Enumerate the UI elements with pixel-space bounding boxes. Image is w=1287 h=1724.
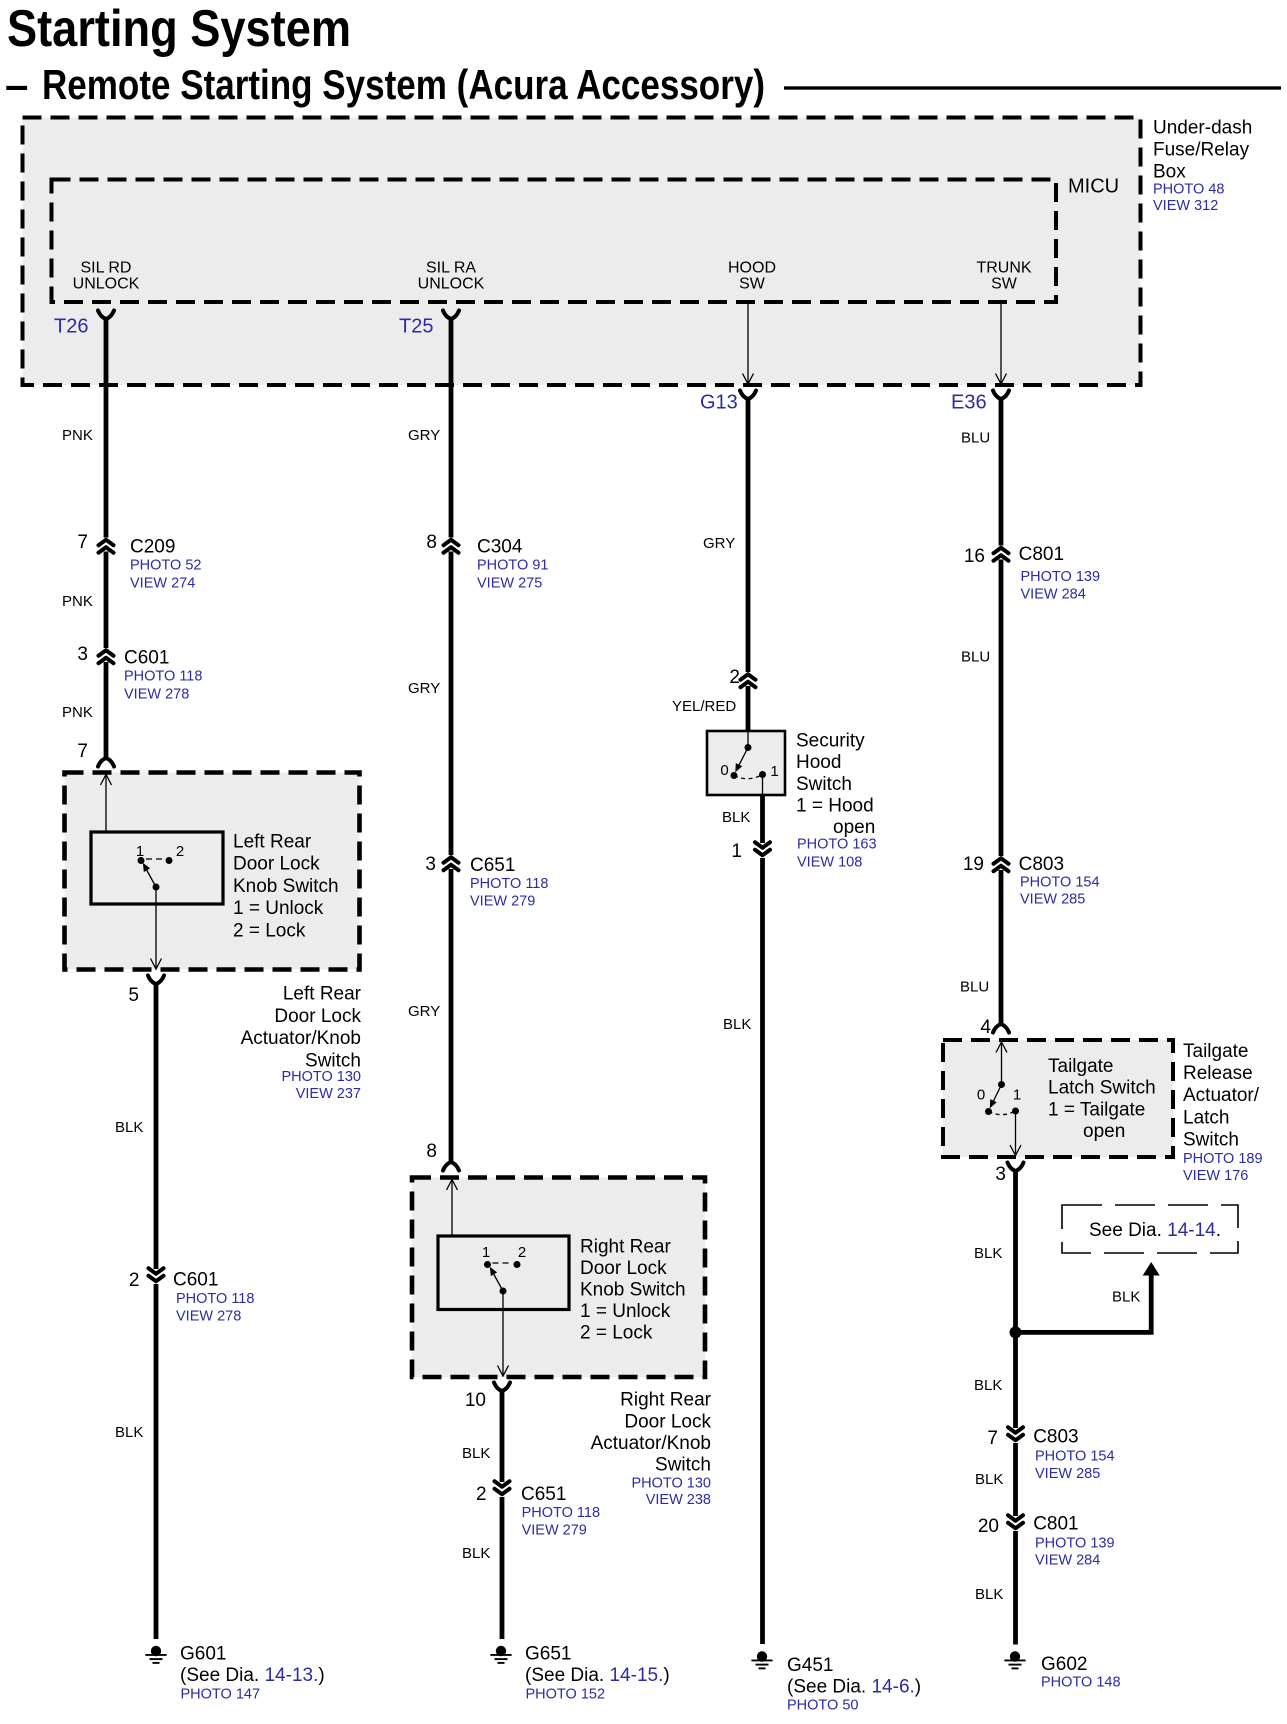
svg-text:16: 16	[964, 546, 985, 567]
left knob switch contact 1	[136, 843, 145, 864]
label: Left Rear Door Lock Actuator/Knob Switch	[241, 984, 362, 1103]
hood switch contact 1	[759, 763, 779, 780]
svg-text:VIEW 275: VIEW 275	[477, 576, 542, 592]
svg-text:Switch: Switch	[1183, 1129, 1239, 1150]
svg-text:2: 2	[476, 1484, 487, 1505]
label: Right Rear Door Lock Actuator/Knob Switch	[591, 1390, 712, 1509]
connector C601 pin 3	[77, 644, 202, 703]
svg-text:Release: Release	[1183, 1063, 1253, 1084]
svg-text:PNK: PNK	[62, 427, 93, 444]
tailgate switch arm	[987, 1085, 1002, 1110]
svg-text:Latch Switch: Latch Switch	[1048, 1078, 1156, 1099]
wire C801 to G602 (BLK)	[975, 1531, 1016, 1645]
svg-text:2 = Lock: 2 = Lock	[233, 921, 306, 942]
label: Right Rear Door Lock Knob Switch	[580, 1236, 686, 1343]
svg-text:SIL RA: SIL RA	[426, 260, 476, 277]
svg-text:Door Lock: Door Lock	[580, 1258, 667, 1279]
svg-text:PHOTO 139: PHOTO 139	[1035, 1536, 1115, 1552]
svg-text:Box: Box	[1153, 161, 1186, 182]
ground G651	[490, 1643, 669, 1702]
svg-text:Security: Security	[796, 730, 865, 751]
svg-text:VIEW 279: VIEW 279	[522, 1523, 587, 1539]
svg-text:2 = Lock: 2 = Lock	[580, 1322, 653, 1343]
tailgate switch dashed throw arc	[989, 1111, 1016, 1115]
label: Tailgate Release Actuator/Latch Switch	[1183, 1041, 1263, 1184]
connector C801 pin 16	[964, 544, 1100, 603]
svg-text:BLK: BLK	[975, 1471, 1003, 1488]
connector C209 pin 7	[77, 532, 201, 592]
svg-text:G13: G13	[700, 392, 738, 414]
svg-text:MICU: MICU	[1068, 176, 1119, 198]
svg-text:7: 7	[77, 532, 88, 553]
svg-text:(See Dia. 14-15.): (See Dia. 14-15.)	[525, 1665, 670, 1686]
svg-text:C651: C651	[470, 855, 515, 876]
svg-text:SW: SW	[739, 276, 766, 293]
ground G602	[1004, 1651, 1120, 1690]
MICU pin label TRUNK SW	[976, 260, 1031, 293]
svg-text:TRUNK: TRUNK	[976, 260, 1031, 277]
label: Tailgate Latch Switch (inside box)	[1048, 1056, 1156, 1142]
right knob switch contact 2	[514, 1244, 527, 1268]
svg-text:HOOD: HOOD	[728, 260, 776, 277]
svg-text:VIEW 108: VIEW 108	[797, 855, 862, 871]
svg-text:Left Rear: Left Rear	[283, 984, 362, 1005]
svg-text:Door Lock: Door Lock	[233, 854, 320, 875]
svg-text:4: 4	[980, 1017, 991, 1038]
wire C803 to C801 (BLK)	[975, 1443, 1016, 1516]
Security Hood Switch box	[707, 731, 785, 795]
svg-text:C601: C601	[173, 1269, 218, 1290]
right knob switch dashed throw link	[493, 1262, 512, 1264]
svg-text:1: 1	[770, 763, 778, 780]
svg-text:SW: SW	[991, 276, 1018, 293]
hood switch arm	[732, 748, 748, 774]
svg-text:PHOTO 50: PHOTO 50	[787, 1698, 858, 1714]
svg-text:G602: G602	[1041, 1654, 1087, 1675]
svg-text:VIEW 312: VIEW 312	[1153, 198, 1218, 214]
svg-text:VIEW 278: VIEW 278	[124, 687, 189, 703]
svg-text:PHOTO 91: PHOTO 91	[477, 558, 548, 574]
svg-text:SIL RD: SIL RD	[81, 260, 132, 277]
svg-text:PNK: PNK	[62, 593, 93, 610]
left knob switch exit line with arrow	[151, 887, 162, 970]
svg-text:(See Dia. 14-13.): (See Dia. 14-13.)	[180, 1665, 325, 1686]
connector C651 pin 2	[476, 1481, 600, 1538]
svg-text:Latch: Latch	[1183, 1107, 1229, 1128]
See Dia. 14-14 reference box	[1062, 1205, 1238, 1253]
wire T25 to C304 (GRY)	[408, 319, 451, 538]
svg-text:7: 7	[987, 1428, 998, 1449]
svg-text:PHOTO 154: PHOTO 154	[1020, 875, 1100, 891]
svg-text:Door Lock: Door Lock	[624, 1411, 711, 1432]
connector pin 2 hood switch	[729, 667, 755, 688]
svg-text:BLU: BLU	[961, 429, 990, 446]
svg-text:VIEW 278: VIEW 278	[176, 1309, 241, 1325]
svg-text:PHOTO 118: PHOTO 118	[522, 1505, 600, 1521]
svg-text:BLK: BLK	[115, 1424, 143, 1441]
svg-text:10: 10	[465, 1390, 486, 1411]
svg-text:Right Rear: Right Rear	[620, 1390, 711, 1411]
svg-text:G451: G451	[787, 1655, 833, 1676]
svg-text:Switch: Switch	[655, 1454, 711, 1475]
connector C651 pin 3	[425, 854, 548, 910]
wire to G451 (BLK)	[723, 858, 763, 1644]
svg-text:1 = Hood: 1 = Hood	[796, 796, 874, 817]
tailgate switch exit line with arrow	[1010, 1111, 1021, 1157]
svg-text:VIEW 237: VIEW 237	[296, 1086, 361, 1102]
wire E36 to C801 (BLU)	[961, 399, 1001, 546]
svg-text:PHOTO 139: PHOTO 139	[1021, 569, 1101, 585]
svg-text:C801: C801	[1019, 544, 1064, 565]
svg-text:UNLOCK: UNLOCK	[418, 276, 485, 293]
left knob switch contact 2	[166, 843, 185, 864]
svg-text:C304: C304	[477, 536, 523, 557]
section subtitle	[5, 61, 1281, 108]
svg-text:Right Rear: Right Rear	[580, 1236, 671, 1257]
svg-text:PNK: PNK	[62, 704, 93, 721]
svg-text:BLK: BLK	[462, 1545, 490, 1562]
svg-text:C209: C209	[130, 536, 175, 557]
connector terminal T25	[399, 311, 459, 338]
svg-text:PHOTO 118: PHOTO 118	[176, 1291, 254, 1307]
connector pin 3 below tailgate latch switch	[995, 1163, 1023, 1185]
svg-text:2: 2	[176, 843, 184, 860]
svg-text:BLK: BLK	[115, 1119, 143, 1136]
svg-text:8: 8	[426, 532, 437, 553]
svg-text:VIEW 285: VIEW 285	[1035, 1466, 1100, 1482]
ground G451	[751, 1651, 921, 1713]
svg-text:5: 5	[128, 985, 139, 1006]
hood switch dashed throw arc	[734, 775, 763, 779]
svg-text:VIEW 279: VIEW 279	[470, 894, 535, 910]
connector C801 pin 20	[978, 1513, 1115, 1568]
tailgate switch entry line with arrow	[996, 1042, 1007, 1088]
wire C801 to C803 (BLU)	[961, 560, 1001, 857]
svg-text:BLK: BLK	[723, 1016, 751, 1033]
svg-text:BLK: BLK	[462, 1445, 490, 1462]
label: Under-dash Fuse/Relay Box PHOTO 48 VIEW 312	[1153, 117, 1252, 214]
svg-text:Tailgate: Tailgate	[1183, 1041, 1249, 1062]
hood switch exit line	[762, 775, 764, 796]
svg-text:C801: C801	[1033, 1513, 1078, 1534]
right knob switch entry line with arrow	[447, 1180, 488, 1265]
Right Rear Door Lock Knob Switch (dashed box)	[412, 1178, 705, 1378]
wire G13 down (GRY)	[703, 399, 748, 672]
wire T26 to C209 (PNK)	[62, 319, 106, 538]
branch wire to See Dia. 14-14 (BLK)	[1016, 1262, 1160, 1332]
connector pin 7 at left knob switch	[77, 741, 114, 767]
Under-dash Fuse/Relay Box (outer dashed box)	[23, 118, 1141, 386]
svg-text:T26: T26	[54, 316, 88, 338]
svg-text:G651: G651	[525, 1643, 571, 1664]
svg-text:PHOTO 130: PHOTO 130	[281, 1069, 361, 1085]
svg-text:PHOTO 52: PHOTO 52	[130, 558, 201, 574]
svg-text:1: 1	[731, 841, 742, 862]
tailgate switch contact 0	[977, 1086, 992, 1115]
left knob switch arm	[140, 861, 160, 890]
svg-text:open: open	[1083, 1121, 1125, 1142]
svg-text:VIEW 176: VIEW 176	[1183, 1168, 1248, 1184]
svg-text:2: 2	[518, 1244, 526, 1261]
svg-text:2: 2	[129, 1270, 140, 1291]
left knob switch inner box	[91, 832, 223, 904]
connector C601 pin 2	[129, 1268, 255, 1324]
svg-text:1: 1	[1013, 1086, 1021, 1103]
svg-text:PHOTO 118: PHOTO 118	[124, 669, 202, 685]
MICU control unit (inner dashed box)	[52, 176, 1120, 302]
svg-text:G601: G601	[180, 1643, 226, 1664]
MICU pin label SIL RD UNLOCK	[73, 260, 140, 293]
svg-text:GRY: GRY	[408, 427, 440, 444]
right knob switch contact 1	[482, 1244, 491, 1268]
MICU pin label HOOD SW	[728, 260, 776, 293]
junction node	[1010, 1326, 1022, 1338]
svg-text:Actuator/Knob: Actuator/Knob	[591, 1433, 711, 1454]
connector pin 5 below left knob switch	[128, 976, 164, 1006]
wire pin3 to C803 (BLK)	[974, 1171, 1016, 1428]
svg-text:VIEW 284: VIEW 284	[1035, 1553, 1100, 1569]
MICU pin label SIL RA UNLOCK	[418, 260, 485, 293]
wire pin10 to C651 (BLK)	[462, 1391, 502, 1482]
svg-text:0: 0	[720, 762, 728, 779]
left knob switch entry line with arrow	[101, 775, 142, 861]
svg-text:20: 20	[978, 1516, 999, 1537]
svg-text:PHOTO 154: PHOTO 154	[1035, 1449, 1115, 1465]
wire C651 to G651 (BLK)	[462, 1497, 502, 1639]
svg-text:C803: C803	[1019, 854, 1064, 875]
svg-text:Under-dash: Under-dash	[1153, 117, 1252, 138]
connector pin 10 below right knob switch	[465, 1383, 510, 1411]
svg-text:PHOTO 152: PHOTO 152	[526, 1687, 606, 1703]
svg-text:PHOTO 189: PHOTO 189	[1183, 1151, 1263, 1167]
svg-text:BLK: BLK	[974, 1245, 1002, 1262]
svg-text:7: 7	[77, 741, 88, 762]
svg-text:1 = Tailgate: 1 = Tailgate	[1048, 1099, 1145, 1120]
svg-text:VIEW 238: VIEW 238	[646, 1492, 711, 1508]
connector pin 1 hood switch	[731, 841, 770, 862]
connector terminal G13	[700, 391, 756, 414]
svg-text:2: 2	[729, 667, 740, 688]
svg-text:Tailgate: Tailgate	[1048, 1056, 1114, 1077]
svg-text:PHOTO 148: PHOTO 148	[1041, 1675, 1121, 1691]
label: Security Hood Switch	[796, 730, 877, 870]
wire C601 to G601 (BLK)	[115, 1284, 156, 1639]
svg-text:open: open	[833, 817, 875, 838]
svg-text:YEL/RED: YEL/RED	[672, 698, 736, 715]
svg-text:BLU: BLU	[960, 978, 989, 995]
svg-text:UNLOCK: UNLOCK	[73, 276, 140, 293]
svg-text:Switch: Switch	[796, 774, 852, 795]
ground G601	[145, 1643, 324, 1702]
svg-text:BLU: BLU	[961, 648, 990, 665]
wire to hood switch (YEL/RED)	[672, 686, 748, 731]
svg-text:See Dia. 14-14.: See Dia. 14-14.	[1089, 1220, 1221, 1241]
label: Left Rear Door Lock Knob Switch	[233, 831, 339, 941]
connector pin 4 at tailgate latch switch	[980, 1017, 1009, 1038]
svg-text:–: –	[5, 61, 28, 108]
svg-text:BLK: BLK	[974, 1377, 1002, 1394]
svg-text:Hood: Hood	[796, 752, 841, 773]
wire C803 to tailgate pin 4 (BLU)	[960, 870, 1001, 1024]
svg-text:GRY: GRY	[408, 1003, 440, 1020]
Left Rear Door Lock Knob Switch (dashed box)	[65, 773, 360, 970]
svg-text:PHOTO 118: PHOTO 118	[470, 876, 548, 892]
svg-text:Left Rear: Left Rear	[233, 831, 312, 852]
connector terminal E36	[951, 391, 1009, 414]
wire C651 to knob switch pin 8 (GRY)	[408, 869, 451, 1162]
wire label BLK below junction	[974, 1377, 1002, 1394]
svg-text:Remote Starting System (Acura: Remote Starting System (Acura Accessory)	[42, 61, 765, 108]
svg-text:BLK: BLK	[722, 809, 750, 826]
connector C803 pin 7	[987, 1426, 1114, 1482]
wire C209 to C601 (PNK)	[62, 552, 106, 649]
svg-text:3: 3	[425, 854, 436, 875]
svg-text:PHOTO 48: PHOTO 48	[1153, 182, 1224, 198]
svg-text:E36: E36	[951, 392, 987, 414]
wire pin5 to C601 (BLK)	[115, 984, 156, 1269]
svg-text:Starting System: Starting System	[7, 0, 351, 58]
svg-text:GRY: GRY	[703, 535, 735, 552]
page title	[7, 0, 351, 58]
svg-text:(See Dia. 14-6.): (See Dia. 14-6.)	[787, 1676, 921, 1697]
svg-text:Knob Switch: Knob Switch	[233, 876, 339, 897]
pin line HOOD SW to box edge	[743, 302, 754, 384]
svg-text:Door Lock: Door Lock	[274, 1006, 361, 1027]
svg-text:Actuator/: Actuator/	[1183, 1085, 1260, 1106]
svg-text:8: 8	[426, 1141, 437, 1162]
right knob switch arm	[487, 1265, 507, 1294]
svg-text:BLK: BLK	[975, 1586, 1003, 1603]
left knob switch dashed throw link	[146, 858, 164, 860]
svg-text:Actuator/Knob: Actuator/Knob	[241, 1028, 361, 1049]
connector pin 8 at right knob switch	[426, 1141, 459, 1171]
svg-text:PHOTO 163: PHOTO 163	[797, 837, 877, 853]
connector C803 pin 19	[963, 854, 1100, 908]
svg-text:0: 0	[977, 1086, 985, 1103]
svg-text:Fuse/Relay: Fuse/Relay	[1153, 139, 1250, 160]
hood switch entry contact	[745, 731, 752, 751]
svg-text:1: 1	[482, 1244, 490, 1261]
wire C304 to C651 (GRY)	[408, 552, 451, 856]
wire hood switch to pin1 (BLK)	[722, 795, 763, 843]
svg-text:GRY: GRY	[408, 680, 440, 697]
svg-text:C651: C651	[521, 1484, 566, 1505]
svg-text:C803: C803	[1033, 1426, 1078, 1447]
tailgate switch contact 1	[1012, 1086, 1021, 1114]
svg-text:19: 19	[963, 854, 984, 875]
pin line TRUNK SW to box edge	[996, 302, 1007, 384]
svg-text:3: 3	[77, 644, 88, 665]
hood switch contact 0	[720, 762, 737, 779]
right knob switch inner box	[438, 1236, 569, 1310]
svg-text:PHOTO 147: PHOTO 147	[181, 1687, 261, 1703]
svg-text:3: 3	[995, 1164, 1006, 1185]
svg-text:T25: T25	[399, 316, 433, 338]
right knob switch exit line with arrow	[498, 1291, 509, 1377]
svg-text:1 = Unlock: 1 = Unlock	[233, 898, 324, 919]
svg-text:Knob Switch: Knob Switch	[580, 1279, 686, 1300]
connector C304 pin 8	[426, 532, 548, 592]
svg-text:C601: C601	[124, 647, 169, 668]
wire C601 to knob switch pin 7 (PNK)	[62, 662, 106, 758]
svg-text:BLK: BLK	[1112, 1288, 1140, 1305]
svg-text:VIEW 285: VIEW 285	[1020, 892, 1085, 908]
Tailgate Latch Switch (dashed box)	[943, 1040, 1173, 1157]
svg-text:PHOTO 130: PHOTO 130	[631, 1476, 711, 1492]
svg-text:VIEW 274: VIEW 274	[130, 576, 195, 592]
svg-text:1 = Unlock: 1 = Unlock	[580, 1301, 671, 1322]
connector terminal T26	[54, 311, 114, 338]
svg-text:VIEW 284: VIEW 284	[1021, 587, 1086, 603]
